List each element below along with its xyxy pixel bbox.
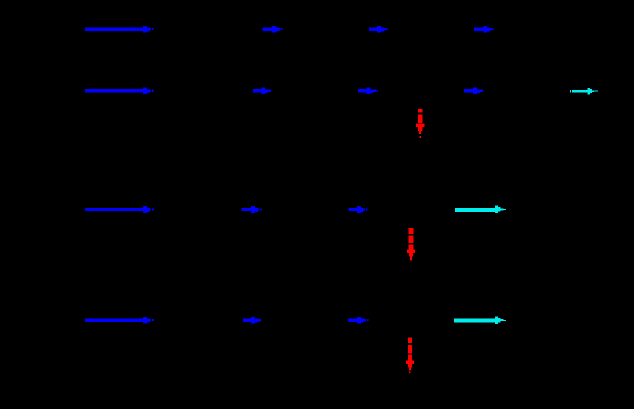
row1 blue arrow 3 xyxy=(369,26,388,33)
row3 long blue arrow xyxy=(85,206,154,213)
row2 blue arrow 2 xyxy=(253,87,271,94)
red dashed arrow 2 (down) xyxy=(407,228,415,260)
row3 blue arrow 2 xyxy=(242,206,263,213)
row4 cyan arrow xyxy=(454,317,506,324)
row2 cyan arrow xyxy=(570,88,598,94)
row4 blue arrow 2 xyxy=(243,317,261,324)
row1 blue arrow 4 xyxy=(474,26,494,33)
row1 long blue arrow xyxy=(85,26,154,33)
row1 blue arrow 2 xyxy=(263,26,283,33)
row2 long blue arrow xyxy=(85,87,154,94)
row4 blue arrow 3 xyxy=(348,317,368,324)
row2 blue arrow 3 xyxy=(358,87,378,94)
row4 long blue arrow xyxy=(85,317,154,324)
row3 blue arrow 3 xyxy=(349,206,368,213)
row2 blue arrow 4 xyxy=(464,87,483,94)
row3 cyan arrow xyxy=(455,206,506,213)
red dashed arrow 1 (down) xyxy=(416,109,424,138)
red dashed arrow 3 (down) xyxy=(406,338,414,373)
